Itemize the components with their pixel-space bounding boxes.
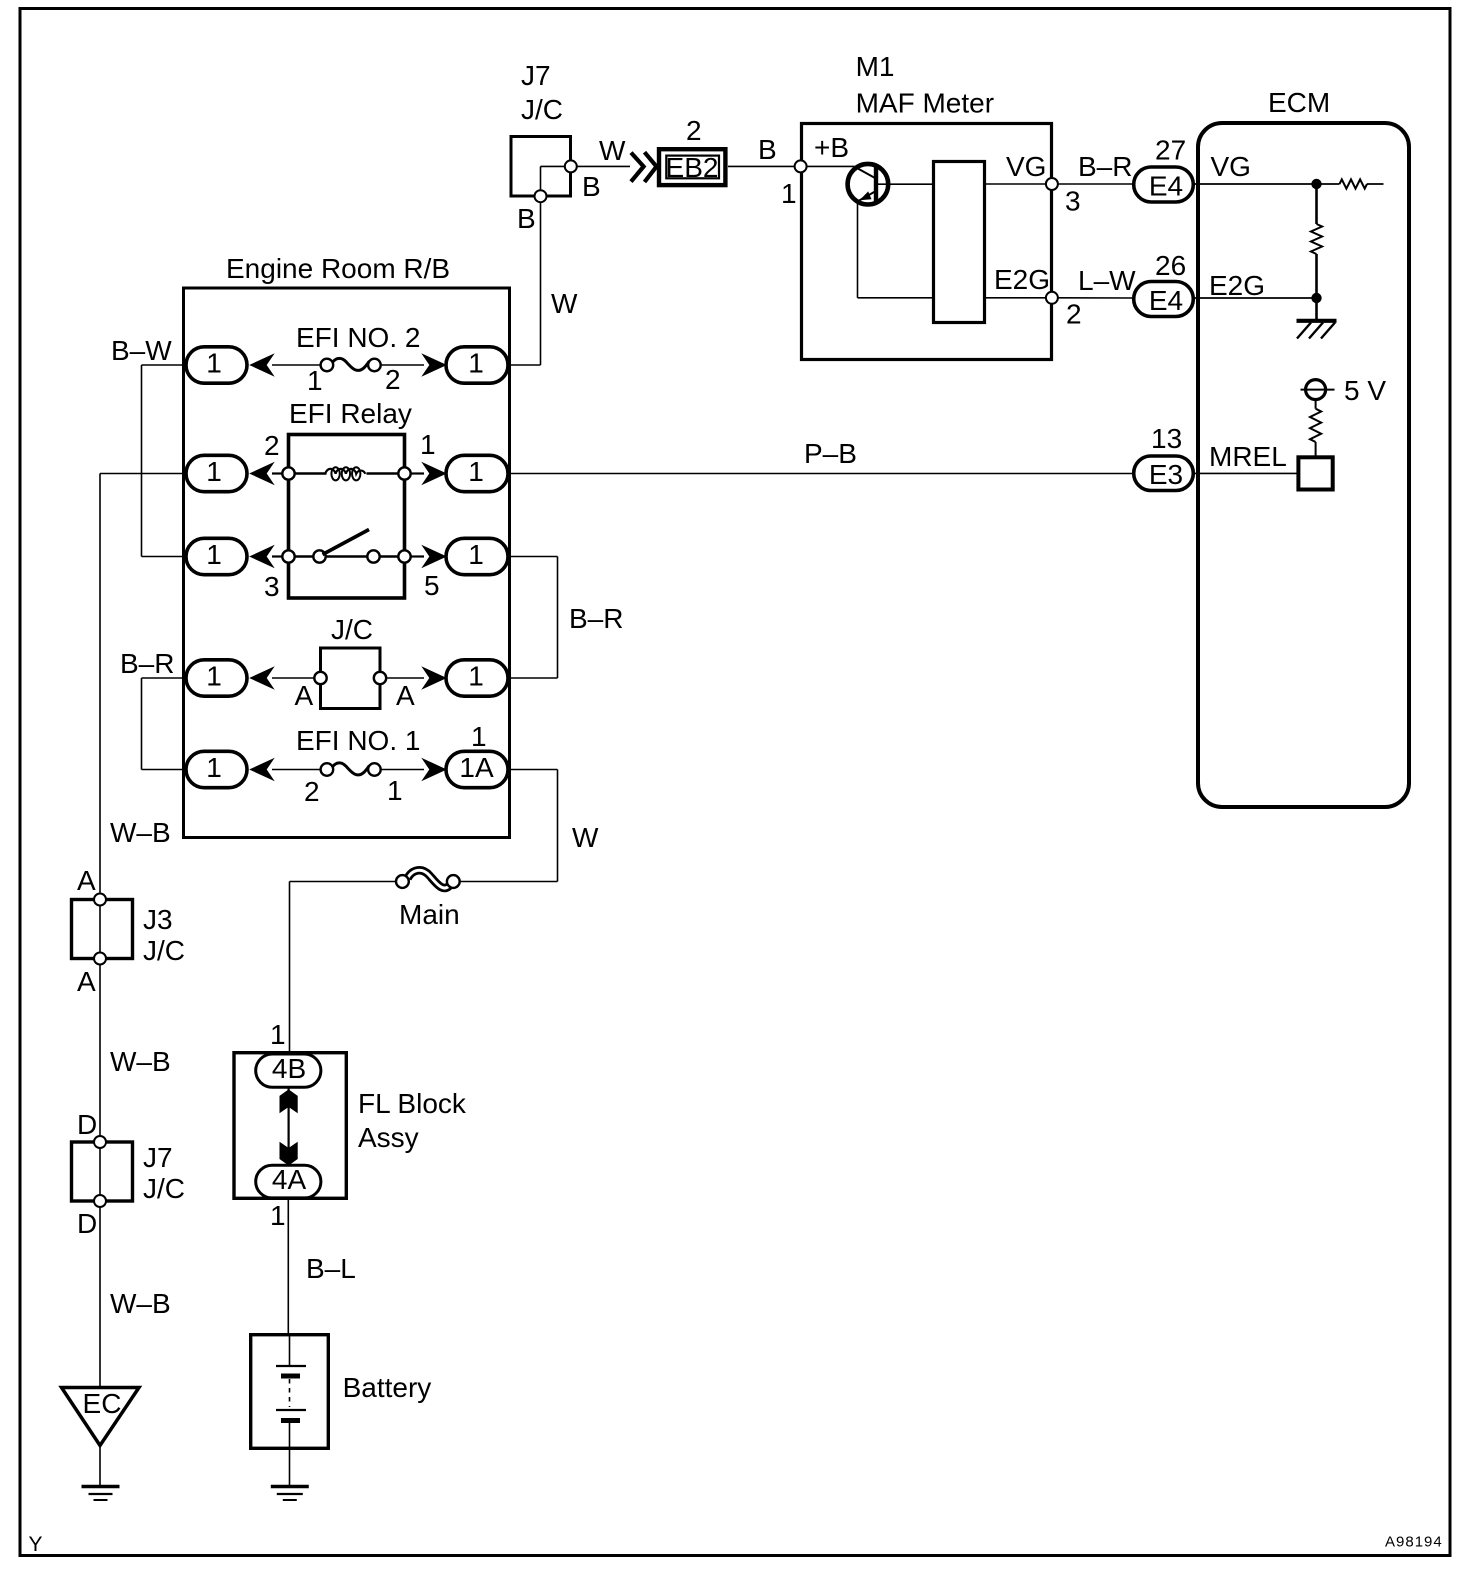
svg-text:1: 1 <box>206 539 222 570</box>
svg-text:Battery: Battery <box>343 1372 432 1403</box>
svg-text:E4: E4 <box>1149 285 1183 316</box>
svg-text:W: W <box>551 288 578 319</box>
svg-text:27: 27 <box>1155 135 1186 166</box>
svg-text:B–R: B–R <box>1078 151 1132 182</box>
svg-text:B–W: B–W <box>111 335 172 366</box>
svg-text:J/C: J/C <box>331 614 373 645</box>
svg-text:W: W <box>599 135 626 166</box>
svg-text:1: 1 <box>387 775 403 806</box>
svg-text:D: D <box>77 1109 97 1140</box>
svg-text:B: B <box>758 134 777 165</box>
svg-text:ECM: ECM <box>1268 87 1330 118</box>
svg-text:EFI Relay: EFI Relay <box>289 398 412 429</box>
svg-text:W–B: W–B <box>110 817 171 848</box>
svg-text:3: 3 <box>1065 186 1081 217</box>
svg-text:2: 2 <box>264 430 280 461</box>
svg-text:+B: +B <box>814 132 849 163</box>
svg-text:4A: 4A <box>272 1164 307 1195</box>
svg-text:1: 1 <box>206 348 222 379</box>
svg-text:4B: 4B <box>272 1053 306 1084</box>
svg-text:EB2: EB2 <box>666 152 719 183</box>
svg-text:L–W: L–W <box>1078 265 1136 296</box>
svg-text:W: W <box>572 822 599 853</box>
svg-text:A: A <box>295 680 314 711</box>
svg-text:J/C: J/C <box>143 1173 185 1204</box>
svg-text:1: 1 <box>468 456 484 487</box>
svg-text:VG: VG <box>1211 151 1251 182</box>
svg-text:J7: J7 <box>143 1142 173 1173</box>
svg-text:A: A <box>77 966 96 997</box>
svg-text:E4: E4 <box>1149 171 1183 202</box>
svg-text:B: B <box>582 171 601 202</box>
svg-text:1: 1 <box>270 1200 286 1231</box>
svg-text:VG: VG <box>1006 151 1046 182</box>
svg-text:P–B: P–B <box>804 438 857 469</box>
svg-text:A: A <box>396 680 415 711</box>
svg-text:E2G: E2G <box>1209 270 1265 301</box>
svg-text:FL Block: FL Block <box>358 1088 467 1119</box>
svg-text:A98194: A98194 <box>1385 1534 1443 1551</box>
svg-text:3: 3 <box>264 571 280 602</box>
svg-text:EC: EC <box>83 1388 122 1419</box>
svg-text:A: A <box>77 865 96 896</box>
svg-text:Assy: Assy <box>358 1122 419 1153</box>
svg-text:2: 2 <box>686 115 702 146</box>
svg-text:Main: Main <box>399 899 460 930</box>
svg-text:M1: M1 <box>856 51 895 82</box>
svg-text:W–B: W–B <box>110 1288 171 1319</box>
svg-text:MREL: MREL <box>1209 441 1287 472</box>
svg-text:E3: E3 <box>1149 459 1183 490</box>
svg-text:1: 1 <box>471 721 487 752</box>
svg-text:1: 1 <box>270 1019 286 1050</box>
svg-text:26: 26 <box>1155 250 1186 281</box>
svg-text:EFI NO. 1: EFI NO. 1 <box>296 725 420 756</box>
svg-text:13: 13 <box>1151 423 1182 454</box>
svg-text:EFI NO. 2: EFI NO. 2 <box>296 322 420 353</box>
svg-text:D: D <box>77 1208 97 1239</box>
svg-text:B: B <box>517 203 536 234</box>
svg-text:5: 5 <box>424 570 440 601</box>
svg-text:MAF Meter: MAF Meter <box>856 88 994 119</box>
svg-text:1: 1 <box>206 661 222 692</box>
svg-text:B–R: B–R <box>569 603 623 634</box>
svg-text:1: 1 <box>307 365 323 396</box>
svg-text:2: 2 <box>385 364 401 395</box>
svg-text:5 V: 5 V <box>1344 375 1386 406</box>
svg-text:2: 2 <box>304 776 320 807</box>
svg-text:1: 1 <box>206 752 222 783</box>
svg-text:E2G: E2G <box>994 264 1050 295</box>
svg-text:J/C: J/C <box>521 94 563 125</box>
svg-text:1: 1 <box>781 178 797 209</box>
svg-text:W–B: W–B <box>110 1046 171 1077</box>
svg-text:B–R: B–R <box>120 648 174 679</box>
svg-text:J3: J3 <box>143 904 173 935</box>
svg-text:Y: Y <box>29 1533 43 1556</box>
svg-text:J7: J7 <box>521 60 551 91</box>
svg-text:1: 1 <box>468 539 484 570</box>
svg-text:J/C: J/C <box>143 935 185 966</box>
svg-text:1: 1 <box>206 456 222 487</box>
svg-text:Engine Room R/B: Engine Room R/B <box>226 253 450 284</box>
svg-text:1: 1 <box>468 348 484 379</box>
svg-text:1: 1 <box>468 661 484 692</box>
svg-text:2: 2 <box>1066 299 1082 330</box>
svg-text:1: 1 <box>420 429 436 460</box>
svg-text:1A: 1A <box>459 752 494 783</box>
svg-text:B–L: B–L <box>306 1253 356 1284</box>
